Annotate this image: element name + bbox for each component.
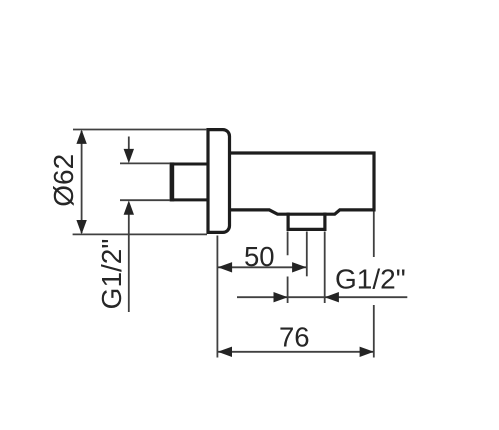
arrowhead right-pointing (outlet left) xyxy=(274,292,288,302)
dimension line 50 xyxy=(218,266,306,268)
inlet stub top line xyxy=(170,163,208,166)
arrowhead left-pointing (outlet right) xyxy=(325,292,339,302)
left extension line (from flange bottom) xyxy=(216,236,218,358)
arrowhead down (Ø62 bottom) xyxy=(76,220,86,234)
dimension line Ø62 xyxy=(81,131,83,233)
inlet stub left edge (thick) xyxy=(170,162,175,201)
inlet extension line top xyxy=(120,162,170,164)
svg-text:G1/2": G1/2" xyxy=(96,239,127,310)
outlet left edge extension xyxy=(287,232,289,304)
outlet right edge extension xyxy=(324,232,326,304)
arrowhead right (76) xyxy=(360,347,374,357)
arrowhead left (50) xyxy=(218,262,232,272)
arrowhead up (Ø62 top) xyxy=(76,130,86,144)
outlet centerline extension xyxy=(306,232,308,277)
extension line bottom (flange bottom, Ø62) xyxy=(73,233,207,235)
arrowhead right (50) xyxy=(292,262,306,272)
svg-text:G1/2": G1/2" xyxy=(335,264,406,295)
arrowhead up (inlet bottom) xyxy=(124,200,134,214)
inlet dim arrow line below xyxy=(128,213,130,312)
extension line top (flange top, Ø62) xyxy=(73,129,207,131)
arrowhead down (inlet top) xyxy=(124,149,134,163)
body of wall elbow (thick outline) xyxy=(228,153,374,214)
svg-text:76: 76 xyxy=(279,322,310,353)
arrowhead left (76) xyxy=(218,347,232,357)
inlet dim arrow line above xyxy=(128,137,130,151)
outlet stub (bottom connector) xyxy=(288,213,325,230)
inlet stub bottom line xyxy=(170,198,208,201)
svg-text:50: 50 xyxy=(244,241,275,272)
inlet extension line bottom xyxy=(120,199,170,201)
outlet thread dim line (arrows outside pointing in) xyxy=(237,296,407,298)
right extension line (from body right edge) xyxy=(373,212,375,358)
wall flange xyxy=(208,130,230,233)
svg-text:Ø62: Ø62 xyxy=(48,154,79,207)
dimension line 76 xyxy=(218,351,374,353)
